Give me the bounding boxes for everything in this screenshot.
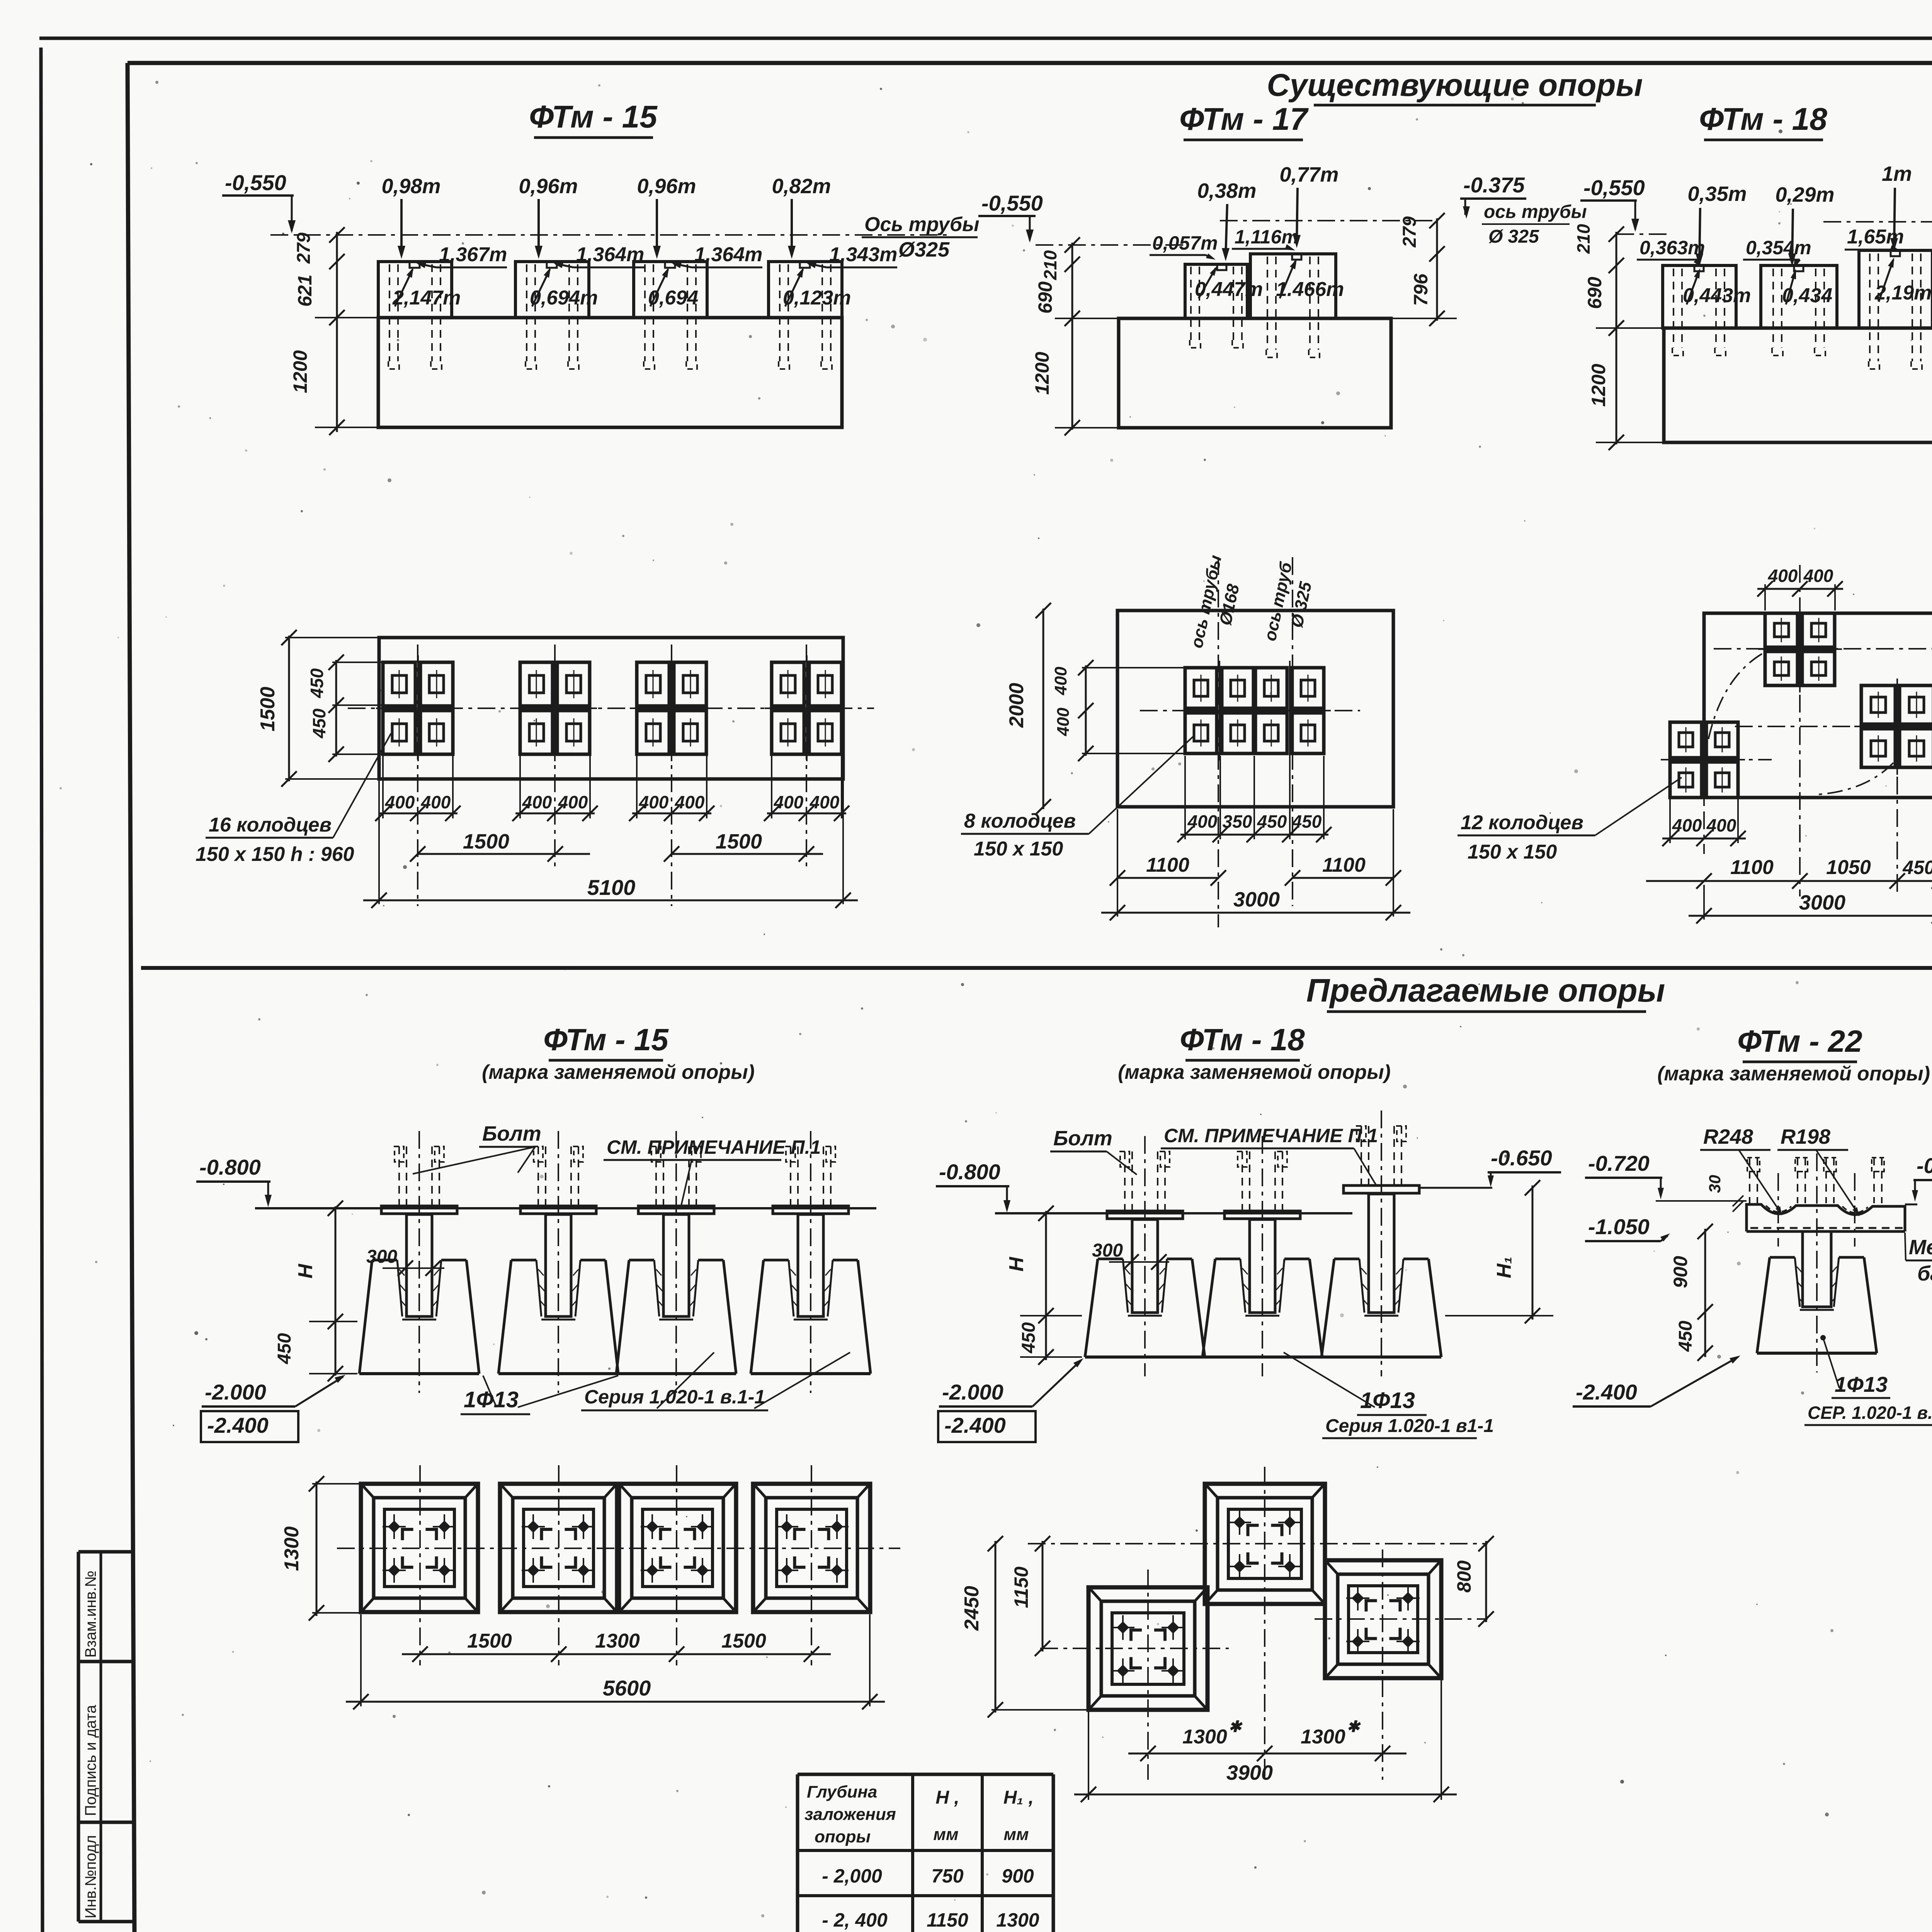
FTm-22 proposed label 1Ф13 (1820, 1335, 1826, 1340)
svg-text:-0.800: -0.800 (199, 1155, 261, 1179)
svg-text:150 х 150: 150 х 150 (1468, 841, 1557, 863)
svg-text:300: 300 (366, 1247, 397, 1267)
svg-text:Глубина: Глубина (807, 1782, 877, 1801)
FTm-15 proposed footing 1Ф13 number 4 (773, 1206, 849, 1214)
FTm-22 proposed anchor bolts dashed (1749, 1158, 1750, 1203)
FTm-15 plan outline (379, 638, 843, 779)
FTm-15 proposed plan horizontal centreline (337, 1548, 900, 1549)
FTm-17 pipe axis -0.550 level (1036, 244, 1188, 246)
svg-text:-1.050: -1.050 (1588, 1214, 1650, 1239)
section divider line (141, 966, 1932, 970)
svg-text:450: 450 (274, 1333, 295, 1364)
FTm-18 proposed upper ground line -0.650 (1419, 1187, 1492, 1189)
FTm-17 plan vertical axis Ø325 (1292, 557, 1293, 906)
svg-text:400: 400 (558, 792, 588, 812)
svg-text:Н: Н (1005, 1257, 1028, 1272)
FTm-15 proposed plan footing square 1 (361, 1484, 478, 1612)
svg-text:Инв.№подл: Инв.№подл (82, 1835, 99, 1918)
svg-text:450: 450 (1902, 857, 1932, 878)
FTm-18 proposed plan footing square right (1325, 1560, 1441, 1678)
FTm-17 left dimension chain (1071, 243, 1073, 430)
svg-text:-0.750: -0.750 (1917, 1153, 1932, 1178)
FTm-18 proposed footing 1Ф13 number 2 (1225, 1211, 1300, 1219)
FTm-18 plan curved leader 2 (1818, 763, 1893, 794)
svg-text:1100: 1100 (1322, 854, 1366, 876)
svg-text:400: 400 (421, 792, 451, 812)
svg-text:Н: Н (294, 1264, 317, 1279)
svg-text:1,367т: 1,367т (439, 243, 507, 266)
svg-text:1500: 1500 (463, 830, 509, 853)
FTm-15 left dimension chain (336, 232, 338, 432)
FTm-17 plan well group left (1185, 668, 1217, 708)
svg-text:30: 30 (1706, 1175, 1724, 1193)
svg-text:1300: 1300 (595, 1630, 640, 1652)
FTm-15 foundation slab (378, 318, 842, 427)
svg-text:1т: 1т (1882, 162, 1912, 185)
FTm-15 proposed plan footing square 3 (619, 1484, 736, 1612)
svg-text:1500: 1500 (716, 830, 762, 853)
svg-text:210: 210 (1573, 224, 1594, 254)
svg-text:400: 400 (385, 792, 415, 812)
FTm-18 pier block 3 (1859, 250, 1932, 328)
FTm-15 pier block 2 (515, 262, 589, 318)
FTm-15 proposed footing 1Ф13 number 3 (638, 1206, 714, 1214)
FTm-15 proposed plan vertical centreline 4 (811, 1465, 812, 1665)
svg-text:350: 350 (1223, 811, 1252, 832)
svg-text:R248: R248 (1703, 1125, 1753, 1148)
svg-text:400: 400 (1672, 815, 1702, 835)
FTm-15 plan dim 5100 (378, 779, 380, 904)
svg-text:1150: 1150 (1010, 1566, 1032, 1608)
svg-text:-0.720: -0.720 (1588, 1151, 1650, 1175)
FTm-18 proposed plan dim 2450 (995, 1541, 997, 1713)
svg-text:1500: 1500 (257, 687, 279, 731)
FTm-17 pier block 1 (1185, 264, 1247, 318)
table of depths H H1 (798, 1773, 1053, 1776)
FTm-15 plan well group 4 (772, 662, 804, 706)
FTm-18 plan dims 1100 1050 450 (1646, 880, 1932, 882)
FTm-15 plan well group 2 (520, 662, 553, 706)
svg-text:Ø325: Ø325 (898, 238, 950, 261)
svg-text:0,35т: 0,35т (1687, 182, 1747, 206)
svg-text:0,82т: 0,82т (772, 175, 831, 198)
svg-text:1150: 1150 (927, 1909, 968, 1931)
FTm-18 proposed ground line (995, 1212, 1352, 1214)
FTm-22 proposed footing 1Ф13 (1803, 1231, 1831, 1307)
svg-text:279: 279 (294, 233, 314, 264)
FTm-15 proposed plan footing square 4 (753, 1484, 870, 1612)
svg-text:0,38т: 0,38т (1197, 179, 1256, 202)
FTm-15 pier block 3 (634, 262, 707, 318)
svg-text:1Ф13: 1Ф13 (464, 1387, 519, 1412)
FTm-15 proposed plan dims 1500 1300 1500 (402, 1653, 831, 1655)
svg-text:✱: ✱ (1228, 1718, 1243, 1735)
svg-text:3000: 3000 (1799, 891, 1845, 914)
svg-text:1500: 1500 (721, 1630, 766, 1652)
svg-text:заложения: заложения (804, 1805, 896, 1824)
svg-text:400: 400 (675, 792, 705, 812)
svg-text:1300: 1300 (1301, 1726, 1345, 1748)
svg-text:279: 279 (1400, 216, 1420, 248)
FTm-17 pier block 2 (1250, 254, 1336, 318)
svg-text:-2.400: -2.400 (1576, 1380, 1637, 1404)
svg-text:-0,550: -0,550 (1583, 175, 1645, 200)
FTm-15 proposed plan dim 5600 (360, 1614, 362, 1706)
FTm-17 plan horizontal centreline (1140, 710, 1360, 711)
FTm-18 proposed plan dims 1300* 1300* (1128, 1753, 1406, 1755)
FTm-15 proposed ground line (255, 1207, 876, 1209)
svg-text:Предлагаемые опоры: Предлагаемые опоры (1306, 972, 1665, 1009)
FTm-18 plan vertical centrelines (1799, 565, 1801, 896)
svg-text:400: 400 (1768, 566, 1798, 586)
svg-text:900: 900 (1002, 1865, 1034, 1887)
sheet outer border (39, 37, 1932, 40)
svg-text:ФТм - 18: ФТм - 18 (1699, 102, 1827, 137)
svg-text:300: 300 (1092, 1240, 1123, 1261)
svg-text:400: 400 (1187, 811, 1218, 832)
svg-text:-0.650: -0.650 (1491, 1146, 1552, 1170)
svg-text:Ø 325: Ø 325 (1488, 226, 1539, 247)
FTm-17 plan well group right (1255, 668, 1287, 708)
FTm-15 proposed plan vertical centreline 1 (419, 1465, 421, 1665)
FTm-18 proposed plan footing square left (1088, 1587, 1207, 1710)
svg-text:5600: 5600 (603, 1676, 651, 1700)
FTm-22 proposed left dim 900 450 (1704, 1229, 1706, 1357)
FTm-17 plan dims 1100 1100 (1117, 809, 1118, 883)
svg-text:(марка заменяемой опоры): (марка заменяемой опоры) (482, 1061, 755, 1083)
FTm-15 pier block 1 (378, 262, 452, 318)
svg-text:400: 400 (522, 792, 552, 812)
svg-text:400: 400 (1051, 667, 1070, 696)
svg-text:ФТм - 17: ФТм - 17 (1179, 102, 1309, 137)
svg-text:0,96т: 0,96т (637, 175, 696, 198)
svg-text:0,694: 0,694 (648, 287, 698, 309)
svg-text:1Ф13: 1Ф13 (1835, 1372, 1888, 1396)
FTm-18 proposed plan dim 1150 (1042, 1541, 1044, 1651)
FTm-17 plan vertical axis Ø168 (1218, 557, 1219, 927)
svg-text:мм: мм (933, 1825, 958, 1844)
FTm-18 plan axis Ø325 horizontal (1735, 726, 1932, 727)
svg-text:1500: 1500 (467, 1630, 512, 1652)
FTm-15 proposed plan dim 1300 (316, 1481, 318, 1616)
FTm-17 pipe axis -0.375 level (1220, 220, 1437, 221)
FTm-18 plan dim 3000 (1703, 885, 1705, 920)
svg-text:1100: 1100 (1730, 856, 1774, 879)
FTm-15 plan group 4 vertical centreline (806, 645, 807, 869)
svg-text:-0.800: -0.800 (939, 1160, 1000, 1184)
svg-text:опоры: опоры (815, 1827, 871, 1846)
FTm-18 plan outline (1704, 613, 1932, 798)
svg-text:750: 750 (931, 1865, 964, 1887)
svg-text:Н ,: Н , (935, 1787, 959, 1808)
svg-text:1,116т: 1,116т (1235, 226, 1299, 248)
svg-text:СМ. ПРИМЕЧАНИЕ П.1: СМ. ПРИМЕЧАНИЕ П.1 (1164, 1125, 1378, 1146)
svg-text:450: 450 (1292, 811, 1322, 832)
FTm-15 plan dim 1500 left (288, 636, 290, 781)
FTm-18 proposed plan footing square top (1205, 1484, 1325, 1604)
svg-text:-0,550: -0,550 (225, 170, 286, 195)
svg-text:ФТм - 15: ФТм - 15 (543, 1022, 669, 1057)
svg-text:796: 796 (1410, 273, 1432, 306)
svg-text:-0,550: -0,550 (981, 191, 1043, 215)
FTm-17 plan dim 2000 (1043, 609, 1044, 809)
FTm-18 proposed plan dim 3900 (1088, 1711, 1089, 1800)
FTm-17 foundation slab (1119, 318, 1391, 428)
svg-text:-2.000: -2.000 (942, 1380, 1003, 1404)
FTm-18 left dimension chain (1616, 232, 1617, 444)
FTm-18 plan axis Ø168 horizontal (1714, 648, 1932, 650)
svg-text:800: 800 (1453, 1560, 1475, 1593)
svg-text:Серия 1.020-1 в1-1: Серия 1.020-1 в1-1 (1325, 1416, 1494, 1436)
svg-text:2,19т: 2,19т (1874, 282, 1932, 304)
svg-text:0,96т: 0,96т (519, 175, 578, 198)
svg-text:R198: R198 (1781, 1125, 1830, 1148)
FTm-15 plan group 3 vertical centreline (671, 645, 672, 906)
FTm-18 plan well group top (1765, 613, 1798, 647)
svg-text:Болт: Болт (482, 1122, 541, 1145)
FTm-15 plan group 2 vertical centreline (554, 645, 556, 869)
FTm-15 proposed plan footing square 2 (500, 1484, 617, 1612)
FTm-15 plan well group 3 (637, 662, 669, 706)
FTm-22 proposed level line -0.720 (1656, 1200, 1747, 1202)
FTm-22 proposed metal beam (1747, 1204, 1905, 1231)
sheet inner frame (128, 61, 1932, 65)
FTm-18 proposed right dim H1 (1532, 1185, 1534, 1320)
svg-text:900: 900 (1670, 1256, 1691, 1288)
svg-text:1200: 1200 (1031, 352, 1053, 395)
svg-text:Подпись и дата: Подпись и дата (82, 1705, 99, 1816)
FTm-18 pipe axis -0.375 level (1823, 221, 1932, 223)
svg-text:0,447т: 0,447т (1195, 278, 1263, 301)
svg-text:450: 450 (307, 668, 327, 698)
FTm-15 plan dim 450 450 left (335, 660, 337, 757)
svg-text:450: 450 (309, 708, 329, 738)
svg-text:Серия 1.020-1 в.1-1: Серия 1.020-1 в.1-1 (584, 1386, 765, 1408)
svg-text:0,29т: 0,29т (1775, 183, 1834, 206)
FTm-15 proposed footing 1Ф13 number 1 (381, 1206, 457, 1214)
svg-text:Н₁ ,: Н₁ , (1003, 1787, 1034, 1808)
svg-text:балка: балка (1917, 1262, 1932, 1285)
FTm-15 plan well group 1 (383, 662, 415, 706)
svg-text:Ось трубы: Ось трубы (864, 213, 980, 236)
FTm-15 proposed footing 1Ф13 number 2 (520, 1206, 596, 1214)
svg-text:Болт: Болт (1053, 1127, 1112, 1150)
svg-text:450: 450 (1257, 811, 1287, 832)
svg-text:(марка заменяемой опоры): (марка заменяемой опоры) (1118, 1061, 1391, 1083)
svg-text:ФТм - 15: ФТм - 15 (529, 99, 658, 134)
svg-text:-2.000: -2.000 (205, 1380, 266, 1404)
svg-text:Н₁: Н₁ (1493, 1257, 1515, 1278)
FTm-17 plan dim 3000 (1117, 883, 1118, 917)
svg-text:3000: 3000 (1233, 888, 1280, 911)
FTm-18 plan horizontal centreline left group (1661, 759, 1772, 760)
svg-text:1200: 1200 (1588, 364, 1609, 406)
FTm-17 plan dims 400 350 450 450 (1184, 756, 1186, 839)
FTm-18 foundation slab (1664, 328, 1932, 442)
svg-text:2450: 2450 (961, 1586, 983, 1631)
FTm-15 pier block 4 (769, 262, 842, 318)
FTm-18 plan well group right (1861, 685, 1895, 724)
svg-text:1Ф13: 1Ф13 (1360, 1388, 1415, 1413)
svg-text:ФТм - 22: ФТм - 22 (1737, 1024, 1862, 1058)
FTm-18 pier block 1 (1663, 265, 1736, 328)
FTm-18 plan top dim 400 400 (1764, 584, 1766, 611)
svg-text:2000: 2000 (1005, 683, 1028, 728)
FTm-15 plan dim 1500 between groups 3-4 (672, 853, 823, 855)
FTm-17 right dimension chain 279 796 (1436, 218, 1438, 321)
FTm-18 proposed footing 1Ф13 number 1 (1107, 1211, 1183, 1219)
FTm-18 proposed left dim H 450 (1045, 1211, 1047, 1360)
svg-text:1200: 1200 (289, 350, 311, 393)
svg-text:0,77т: 0,77т (1279, 163, 1338, 186)
FTm-15 plan dims 400 400 under groups (382, 756, 384, 818)
FTm-18 pier block 2 (1761, 265, 1837, 328)
FTm-15 plan dim 1500 between groups 1-2 (418, 853, 590, 855)
svg-text:Существующие опоры: Существующие опоры (1267, 68, 1643, 103)
svg-text:5100: 5100 (587, 875, 636, 900)
svg-text:450: 450 (1675, 1321, 1696, 1352)
svg-text:0,98т: 0,98т (381, 175, 440, 198)
FTm-15 proposed plan vertical centreline 2 (558, 1465, 560, 1665)
svg-text:1100: 1100 (1146, 854, 1189, 876)
svg-text:1,364т: 1,364т (694, 243, 762, 266)
svg-text:-0.375: -0.375 (1463, 173, 1525, 197)
svg-text:1300: 1300 (1182, 1726, 1227, 1748)
FTm-18 proposed footing 1Ф13 number 3 (1344, 1185, 1419, 1193)
svg-text:400: 400 (1054, 707, 1073, 736)
svg-text:0,363т: 0,363т (1639, 237, 1705, 259)
svg-text:ось трубы: ось трубы (1484, 202, 1587, 222)
svg-text:(марка заменяемой опоры): (марка заменяемой опоры) (1657, 1063, 1930, 1085)
FTm-18 proposed plan centrelines (1147, 1570, 1149, 1780)
svg-text:Взам.инв.№: Взам.инв.№ (82, 1570, 99, 1658)
svg-text:Металлическая: Металлическая (1909, 1236, 1932, 1259)
FTm-17 plan outline (1117, 611, 1393, 807)
svg-text:12 колодцев: 12 колодцев (1461, 811, 1583, 834)
svg-text:мм: мм (1003, 1825, 1029, 1844)
svg-text:СЕР. 1.020-1 в.1-1: СЕР. 1.020-1 в.1-1 (1808, 1403, 1932, 1423)
svg-text:-2.400: -2.400 (944, 1413, 1006, 1437)
svg-text:1050: 1050 (1826, 856, 1871, 879)
svg-text:690: 690 (1584, 277, 1605, 309)
FTm-18 plan well group left (1670, 722, 1702, 758)
FTm-15 plan horizontal centreline (348, 707, 874, 709)
svg-text:400: 400 (639, 792, 669, 812)
svg-text:621: 621 (294, 274, 316, 306)
svg-text:400: 400 (774, 792, 804, 812)
svg-text:ФТм - 18: ФТм - 18 (1180, 1022, 1305, 1057)
svg-text:690: 690 (1034, 281, 1056, 314)
FTm-15 proposed left dim H 450 (335, 1206, 337, 1376)
svg-text:16 колодцев: 16 колодцев (209, 814, 332, 836)
FTm-22 proposed pipe axes verticals (1777, 1173, 1779, 1247)
svg-text:1300: 1300 (996, 1909, 1039, 1931)
svg-text:8 колодцев: 8 колодцев (964, 810, 1076, 832)
FTm-15 existing elevation pipe axis (270, 234, 951, 236)
svg-text:0,354т: 0,354т (1746, 237, 1811, 259)
FTm-18 proposed plan dim 800 (1485, 1541, 1487, 1622)
svg-text:400: 400 (810, 792, 840, 812)
svg-text:3900: 3900 (1226, 1761, 1273, 1784)
svg-text:400: 400 (1706, 815, 1736, 835)
FTm-18 plan curved leader 1 (1706, 654, 1762, 750)
svg-text:210: 210 (1040, 250, 1060, 280)
FTm-17 plan dims 400 400 left (1085, 665, 1087, 756)
svg-text:0,057т: 0,057т (1152, 232, 1218, 254)
svg-text:-2.400: -2.400 (207, 1413, 269, 1437)
stamp column boxes (77, 1552, 80, 1922)
FTm-15 proposed plan vertical centreline 3 (676, 1465, 677, 1665)
svg-text:150 х 150 h : 960: 150 х 150 h : 960 (196, 843, 354, 866)
svg-text:1,65т: 1,65т (1847, 226, 1904, 248)
FTm-18 plan bottom dim 400 400 (1669, 799, 1671, 843)
svg-text:450: 450 (1019, 1322, 1039, 1354)
svg-text:1300: 1300 (281, 1526, 303, 1571)
svg-text:- 2, 400: - 2, 400 (822, 1909, 888, 1931)
svg-text:- 2,000: - 2,000 (822, 1865, 882, 1887)
svg-text:1,343т: 1,343т (829, 243, 897, 266)
svg-text:150 х 150: 150 х 150 (974, 838, 1063, 860)
svg-text:400: 400 (1803, 566, 1833, 586)
svg-text:✱: ✱ (1347, 1718, 1361, 1735)
FTm-15 plan group 1 vertical centreline (417, 645, 418, 906)
